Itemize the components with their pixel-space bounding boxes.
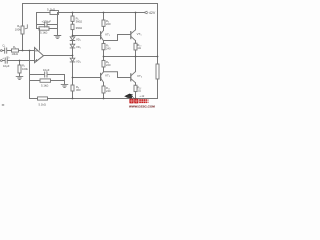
wire pot column upper: [22, 4, 24, 27]
potentiometer wiper: [25, 25, 27, 29]
transistor VT5: [130, 32, 132, 39]
svg-text:10μF: 10μF: [43, 68, 50, 72]
wire VT5 collector: [135, 13, 137, 30]
svg-text:+42V: +42V: [147, 11, 156, 15]
label corner smudge: [2, 104, 4, 106]
svg-text:240: 240: [106, 89, 111, 93]
svg-text:WWW.DZSC.COM: WWW.DZSC.COM: [129, 105, 155, 109]
terminal +42V arrow: [144, 11, 147, 13]
wire: [135, 83, 137, 85]
resistor 5.1k bottom: [38, 97, 48, 100]
transistor VT1: [100, 32, 102, 39]
wire: [103, 50, 105, 61]
resistor R10 1R: [134, 43, 137, 50]
wire: [135, 41, 137, 44]
wire: [2, 60, 4, 62]
wire gnd stub right of R3: [57, 13, 59, 36]
node VT2 base wire: [73, 77, 101, 79]
svg-text:5.1kΩ: 5.1kΩ: [47, 8, 56, 12]
wire: [135, 92, 137, 99]
ground: [16, 76, 23, 79]
wire: [103, 67, 105, 72]
resistor R5 360: [71, 16, 74, 21]
node noninverting input wire: [8, 60, 35, 62]
wire load column: [157, 4, 159, 65]
svg-text:1Ω: 1Ω: [137, 46, 141, 50]
resistor R3 5.1k in rail: [50, 11, 59, 15]
resistor R1 10k: [12, 49, 19, 52]
resistor R12 1R: [134, 85, 137, 91]
capacitor C2 10uF: [5, 58, 7, 63]
resistor R2 100k: [18, 65, 21, 73]
wire op-amp V+ stub: [39, 29, 41, 51]
svg-text:+220μF: +220μF: [42, 20, 52, 24]
watermark red text: [129, 99, 155, 109]
terminal input 2: [1, 60, 3, 62]
wire VT1 emitter to VT5 base: [104, 35, 131, 44]
node VT1 base wire: [73, 35, 101, 37]
wire pot column lower: [22, 34, 24, 51]
wire: [103, 26, 105, 30]
capacitor C1: [5, 48, 7, 53]
resistor 5.1k decoupling: [39, 27, 49, 30]
svg-text:360Ω: 360Ω: [76, 26, 83, 30]
svg-text:VT₆: VT₆: [137, 74, 143, 78]
diode VD1: [70, 37, 75, 41]
wire: [103, 82, 105, 86]
wire: [72, 21, 74, 24]
ground: [54, 36, 61, 39]
svg-text:VT₅: VT₅: [137, 32, 143, 36]
resistor 360: [71, 24, 74, 29]
diode VD2: [70, 44, 75, 48]
wire chain bottom: [72, 62, 74, 78]
wire: [72, 40, 74, 44]
svg-text:10kΩ: 10kΩ: [12, 52, 18, 56]
wire R6 top: [103, 13, 105, 21]
svg-text:5.1kΩ: 5.1kΩ: [40, 31, 47, 35]
svg-text:240: 240: [106, 47, 111, 51]
svg-text:100k: 100k: [22, 67, 28, 71]
svg-text:R₂: R₂: [22, 63, 25, 67]
svg-text:VD₁: VD₁: [76, 38, 81, 42]
wire: [103, 93, 105, 99]
wire: [2, 50, 4, 52]
wire: [7, 50, 11, 52]
node inverting input wire: [19, 50, 35, 52]
wire R2 top: [19, 61, 21, 66]
capacitor 10uF feedback: [45, 72, 47, 77]
svg-text:5.1kΩ: 5.1kΩ: [41, 84, 48, 88]
capacitor 220uF: [45, 22, 47, 27]
wire VT2 to VT6 base: [104, 72, 131, 78]
node op-amp output wire: [44, 55, 73, 57]
wire +42V rail: [37, 12, 145, 14]
svg-text:10μF: 10μF: [3, 64, 10, 68]
wire feedback vertical: [29, 51, 31, 99]
svg-text:VD₃: VD₃: [76, 59, 81, 63]
svg-text:-+12: -+12: [139, 95, 145, 98]
wire res branch: [37, 28, 58, 30]
node output line: [104, 56, 158, 58]
wire VT6 emitter column: [135, 57, 137, 72]
svg-text:C₁: C₁: [2, 44, 5, 48]
resistor R6 220: [102, 20, 105, 26]
wire: [135, 50, 137, 57]
svg-text:R₁: R₁: [13, 45, 16, 49]
transistor VT2: [100, 73, 102, 80]
wire: [72, 30, 74, 37]
wire R2 bottom: [19, 73, 21, 76]
transistor VT6: [130, 74, 132, 81]
svg-text:5.1kΩ: 5.1kΩ: [39, 103, 46, 107]
watermark logo dark: [124, 94, 134, 99]
wire RC left vertical: [36, 13, 38, 29]
svg-text:+: +: [2, 56, 4, 60]
wire cap branch: [37, 24, 58, 26]
wire: [72, 48, 74, 58]
diode VD3: [70, 58, 75, 62]
resistor R8 360: [71, 85, 74, 91]
svg-text:100k: 100k: [15, 28, 21, 32]
wire R8 bottom: [72, 91, 74, 99]
terminal input 1: [1, 50, 3, 52]
svg-text:220: 220: [106, 63, 111, 67]
svg-text:360: 360: [76, 88, 81, 92]
wire R8 top: [72, 78, 74, 86]
load RL: [156, 64, 159, 79]
resistor R9 220: [102, 60, 105, 67]
svg-text:VT₁: VT₁: [105, 32, 110, 36]
svg-text:VT₂: VT₂: [105, 74, 111, 78]
op-amp A1: [35, 48, 44, 63]
resistor RP (100k): [21, 26, 24, 34]
resistor R11 240: [102, 86, 105, 93]
resistor R7 240: [102, 43, 105, 49]
svg-text:VD₂: VD₂: [76, 45, 81, 49]
svg-text:R₄: R₄: [17, 24, 20, 28]
resistor 5.1k feedback: [40, 79, 51, 82]
wire: [64, 75, 66, 85]
wire lower RC top branch: [30, 74, 65, 76]
svg-text:1Ω: 1Ω: [137, 89, 141, 93]
ground: [61, 84, 68, 87]
wire bottom feedback line: [30, 98, 158, 100]
wire: [157, 79, 159, 99]
wire feedback top line: [23, 3, 158, 5]
junction dots: [19, 12, 159, 100]
svg-text:360Ω: 360Ω: [76, 20, 83, 24]
wire lower RC bottom branch: [30, 80, 65, 82]
svg-text:C₂: C₂: [7, 55, 10, 59]
svg-text:220: 220: [106, 22, 111, 26]
wire diode chain top: [72, 13, 74, 17]
